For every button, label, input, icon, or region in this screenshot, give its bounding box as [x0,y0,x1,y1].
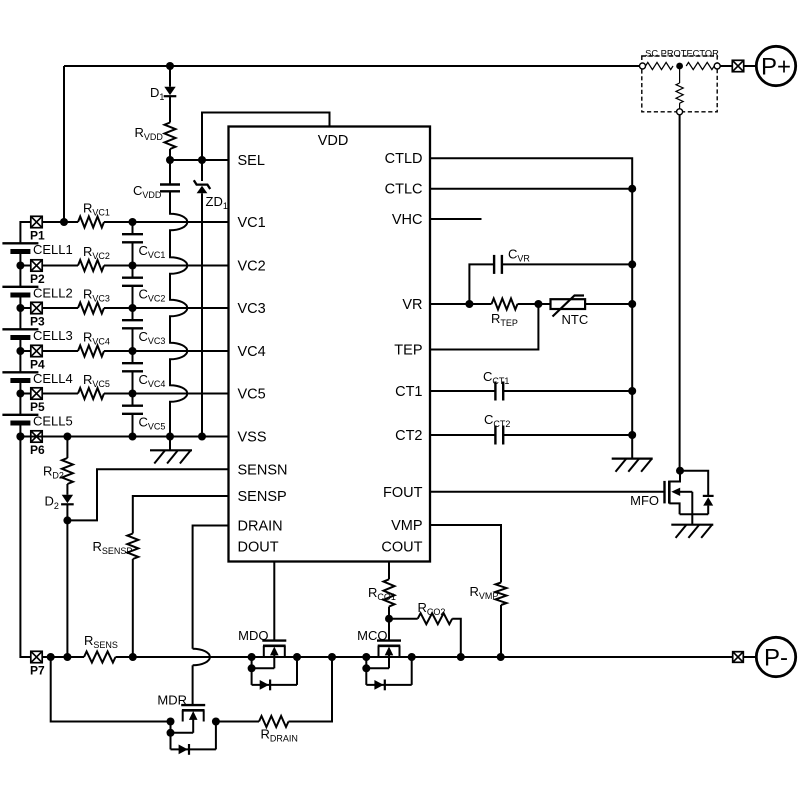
wire CT1 left [430,390,495,392]
svg-text:VC2: VC2 [238,259,266,275]
wire VC2 row left [42,265,78,267]
node junction VC5/cap [129,390,137,398]
wire P7 to RSENS [42,656,84,658]
resistor RSENSP [127,534,138,560]
svg-text:MCO: MCO [357,628,387,643]
svg-text:SC PROTECTOR: SC PROTECTOR [645,49,719,59]
diode MFO body [703,497,713,505]
node junction battery tap [16,304,24,312]
node junction VR row/bus [628,300,636,308]
node junction MFO drain [676,467,684,475]
wire VC2 row right [104,265,229,267]
wire CVR left [469,264,494,304]
node junction VC1/cap [129,218,137,226]
node junction battery tap [16,347,24,355]
node junction RDRAIN riser [328,653,336,661]
terminal P6 [31,431,42,442]
wire P3 stub [20,307,31,309]
wire battery segment below CELL1 [19,252,21,287]
node junction ZD1/VSS [198,433,206,441]
wire CTLD [430,158,632,458]
wire RCO2 right [452,619,461,657]
node junction VR/CVR [465,300,473,308]
resistor RVC5 [78,388,104,399]
wire VC3 row right [104,307,229,309]
svg-text:VC3: VC3 [238,301,266,317]
SC terminal left [640,63,646,69]
zener ZD1 [194,180,210,189]
svg-text:CELL5: CELL5 [33,414,73,429]
wire VC4 row right [104,350,229,352]
resistor RVDD [165,123,176,150]
wire VC5 row right [104,393,229,395]
node junction RVMP riser [497,653,505,661]
wire RCO2 left [389,618,418,620]
node junction VSS/RD2 [63,433,71,441]
node junction P7 row/D2 line [63,653,71,661]
wire top rail P+ net [64,65,640,67]
capacitor CVC3 [122,319,143,321]
node junction SEL/ZD1/VDD [198,156,206,164]
wire SEL [170,159,229,161]
svg-text:P-: P- [764,645,788,672]
battery CELL5 [2,414,38,416]
wire ZD1 top [201,160,203,181]
battery CELL2 [2,286,38,288]
node junction CVC5/VSS [129,433,137,441]
node junction P1 row / left drop [60,218,68,226]
svg-text:VHC: VHC [392,212,423,228]
wire VC5 row left [42,393,78,395]
node junction VC2/cap [129,262,137,270]
svg-text:P7: P7 [30,664,45,678]
resistor RD2 [62,458,73,484]
node junction SEL/CVDD [166,156,174,164]
wire left drop to P1 [63,66,65,222]
svg-text:P+: P+ [761,54,791,81]
battery CELL1 [2,242,38,244]
node junction D2/SENSN [63,516,71,524]
wire VR left [430,303,492,305]
wire CT2 left [430,434,495,436]
node junction SC center [676,63,683,70]
transistor MDR [181,704,205,706]
wire P7 drop to MDR [51,657,171,722]
svg-text:MFO: MFO [630,493,659,508]
svg-text:NTC: NTC [562,312,589,327]
svg-text:CTLC: CTLC [385,182,423,198]
node junction RCO2 riser [457,653,465,661]
wire COUT to RCO1 [388,562,390,580]
wire battery segment below CELL2 [19,295,21,329]
capacitor CVC1 [122,233,143,235]
svg-text:P1: P1 [30,229,45,243]
wire cap CVC2 top [132,266,134,278]
node junction top rail / D1 [166,62,174,70]
wire MFO source to ground [691,514,693,524]
node junction CT1/bus [628,387,636,395]
wire RTEP to NTC [518,303,551,305]
wire SC to P+ box [720,65,732,67]
svg-text:SENSN: SENSN [238,462,288,478]
ground right bus [612,458,653,460]
terminal P+ circle [756,46,795,85]
node junction hopline/VSS [166,433,174,441]
wire CT1 right [503,390,632,392]
resistor RCO2 [418,613,453,624]
node junction CT2/bus [628,431,636,439]
node junction battery tap [16,433,24,441]
svg-text:P4: P4 [30,358,45,372]
wire RD2 to D2 [66,484,68,495]
capacitor CCT2 [494,426,496,445]
wire main row [116,656,734,658]
ground MFO [671,524,713,526]
transistor MCO [377,639,401,641]
ground VSS [169,437,171,451]
wire cap CVC4 bottom [132,371,134,393]
svg-text:CELL1: CELL1 [33,242,73,257]
svg-text:DOUT: DOUT [238,540,279,556]
wire CVR right [502,263,632,265]
capacitor CVDD [160,183,180,185]
resistor RSENS [84,652,116,663]
svg-text:CELL2: CELL2 [33,286,73,301]
wire cap CVC1 top [132,222,134,234]
terminal box P+ [732,60,743,71]
node junction RTEP/NTC/TEP [534,300,542,308]
wire RVDD to SEL row [169,149,171,160]
wire ZD1 to VSS [201,193,203,436]
svg-text:P2: P2 [30,272,45,286]
capacitor CVC4 [122,362,143,364]
transistor MFO gate bar [663,481,665,504]
wire RSENSP to P7 row [132,559,134,657]
wire VC1 row left [42,221,78,223]
wire MFO drain stub [669,471,680,482]
wire cap CVC4 top [132,351,134,363]
node junction battery tap [16,390,24,398]
svg-text:CELL3: CELL3 [33,328,73,343]
wire MFO source stub [669,503,679,514]
svg-text:SEL: SEL [238,153,265,169]
SC terminal bottom [677,109,683,115]
resistor SC heater [676,83,683,103]
wire MFO bottom [680,513,709,515]
node junction P6/battery [16,433,24,441]
resistor SC fuse right [686,62,714,69]
svg-text:VC5: VC5 [238,387,266,403]
resistor RVC2 [78,260,104,271]
resistor RVC4 [78,346,104,357]
node junction CTLC/bus [628,185,636,193]
wire SC protector to MFO drain [679,115,681,471]
node junction VC4/cap [129,347,137,355]
wire VC1 row right [104,221,229,223]
terminal P5 [31,388,42,399]
resistor SC fuse left [646,62,674,69]
svg-text:VDD: VDD [318,133,349,149]
capacitor CVC5 [122,405,143,407]
wire P1 corner [20,222,31,243]
resistor RVC1 [78,217,104,228]
wire CT2 right [503,434,632,436]
wire cap CVC5 bottom [132,414,134,437]
terminal P3 [31,302,42,313]
wire DOUT to MDO gate [273,562,275,641]
IC U1 body [229,127,431,562]
wire TEP [430,304,538,350]
svg-text:TEP: TEP [394,343,422,359]
thermistor NTC [551,299,586,309]
terminal P2 [31,260,42,271]
wire cap CVC2 bottom [132,286,134,308]
terminal box P- [733,652,744,663]
diode D1 [164,87,175,95]
wire cap CVC5 top [132,394,134,406]
svg-text:VMP: VMP [391,518,422,534]
wire SENSN [67,469,228,520]
svg-text:VC1: VC1 [238,215,266,231]
svg-text:SENSP: SENSP [238,489,287,505]
terminal P4 [31,345,42,356]
node junction P7/MDR drop [47,653,55,661]
svg-text:VSS: VSS [238,430,267,446]
wire P4 stub [20,350,31,352]
resistor RVMP [496,583,507,606]
wire VDD net to pin [202,113,330,161]
wire VHC stub [430,218,482,220]
wire RVMP to main row [500,605,502,657]
wire CVDD-VSS hop line [170,191,187,436]
capacitor CVR [493,255,495,274]
wire battery bottom to P7 [20,423,31,657]
node junction VC3/cap [129,304,137,312]
terminal P1 [31,216,42,227]
svg-text:CELL4: CELL4 [33,371,73,386]
SC protector dashed box [642,56,717,112]
node junction RCO1/RCO2 [385,615,393,623]
svg-text:CT2: CT2 [395,428,422,444]
wire RD2 top [66,437,68,459]
wire cap CVC3 bottom [132,328,134,351]
svg-text:DRAIN: DRAIN [238,519,283,535]
node junction battery tap [16,262,24,270]
capacitor CCT1 [494,382,496,401]
wire box to P+ [744,65,756,67]
wire VC3 row left [42,307,78,309]
node junction CVR/bus [628,260,636,268]
svg-text:COUT: COUT [381,540,422,556]
wire cap CVC3 top [132,308,134,320]
wire VC4 row left [42,350,78,352]
wire VSS row [20,436,228,438]
svg-text:P6: P6 [30,443,45,457]
svg-text:VR: VR [402,297,422,313]
diode D2 [62,495,73,503]
SC terminal right [714,63,720,69]
wire D1 anode [169,66,171,87]
wire MFO arrow [680,491,693,493]
wire cap CVC1 bottom [132,242,134,265]
svg-text:MDR: MDR [157,693,187,708]
wire P2 stub [20,265,31,267]
svg-text:CT1: CT1 [395,384,422,400]
resistor RDRAIN [259,716,289,727]
wire box to P- [743,656,756,658]
wire D1 to RVDD [169,97,171,123]
wire SEL to CVDD [169,160,171,185]
wire D2 to P7 row [66,505,68,657]
wire P5 stub [20,393,31,395]
svg-text:MDO: MDO [238,628,268,643]
wire MFO diode bottom [707,506,709,515]
wire RDRAIN riser [289,657,333,722]
resistor RTEP [492,299,518,310]
svg-text:VC4: VC4 [238,344,266,360]
wire VMP [430,525,501,583]
transistor MFO channel bar [668,481,671,504]
svg-text:FOUT: FOUT [383,485,423,501]
wire MDR to RDRAIN [216,721,259,723]
wire CTLC [430,188,632,190]
wire FOUT [430,491,664,493]
terminal P7 [31,651,42,662]
wire DRAIN to MDR gate [192,665,194,705]
svg-text:P5: P5 [30,400,45,414]
capacitor CVC2 [122,277,143,279]
terminal P- circle [756,637,795,676]
wire RCO1 to MCO gate [388,607,390,641]
svg-text:CTLD: CTLD [385,151,423,167]
resistor RVC3 [78,303,104,314]
wire battery segment below CELL3 [19,338,21,373]
transistor MDO [262,639,286,641]
svg-text:P3: P3 [30,315,45,329]
battery CELL4 [2,371,38,373]
battery CELL3 [2,328,38,330]
wire SENSP [133,496,229,534]
wire DRAIN [193,526,229,649]
wire NTC right [585,303,632,305]
wire battery segment below CELL4 [19,381,21,415]
node junction RSENSP/main row [129,653,137,661]
wire DRAIN hop [193,649,210,666]
wire MFO diode top [680,471,708,496]
resistor RCO1 [384,579,395,606]
wire P6 stub [20,436,31,438]
